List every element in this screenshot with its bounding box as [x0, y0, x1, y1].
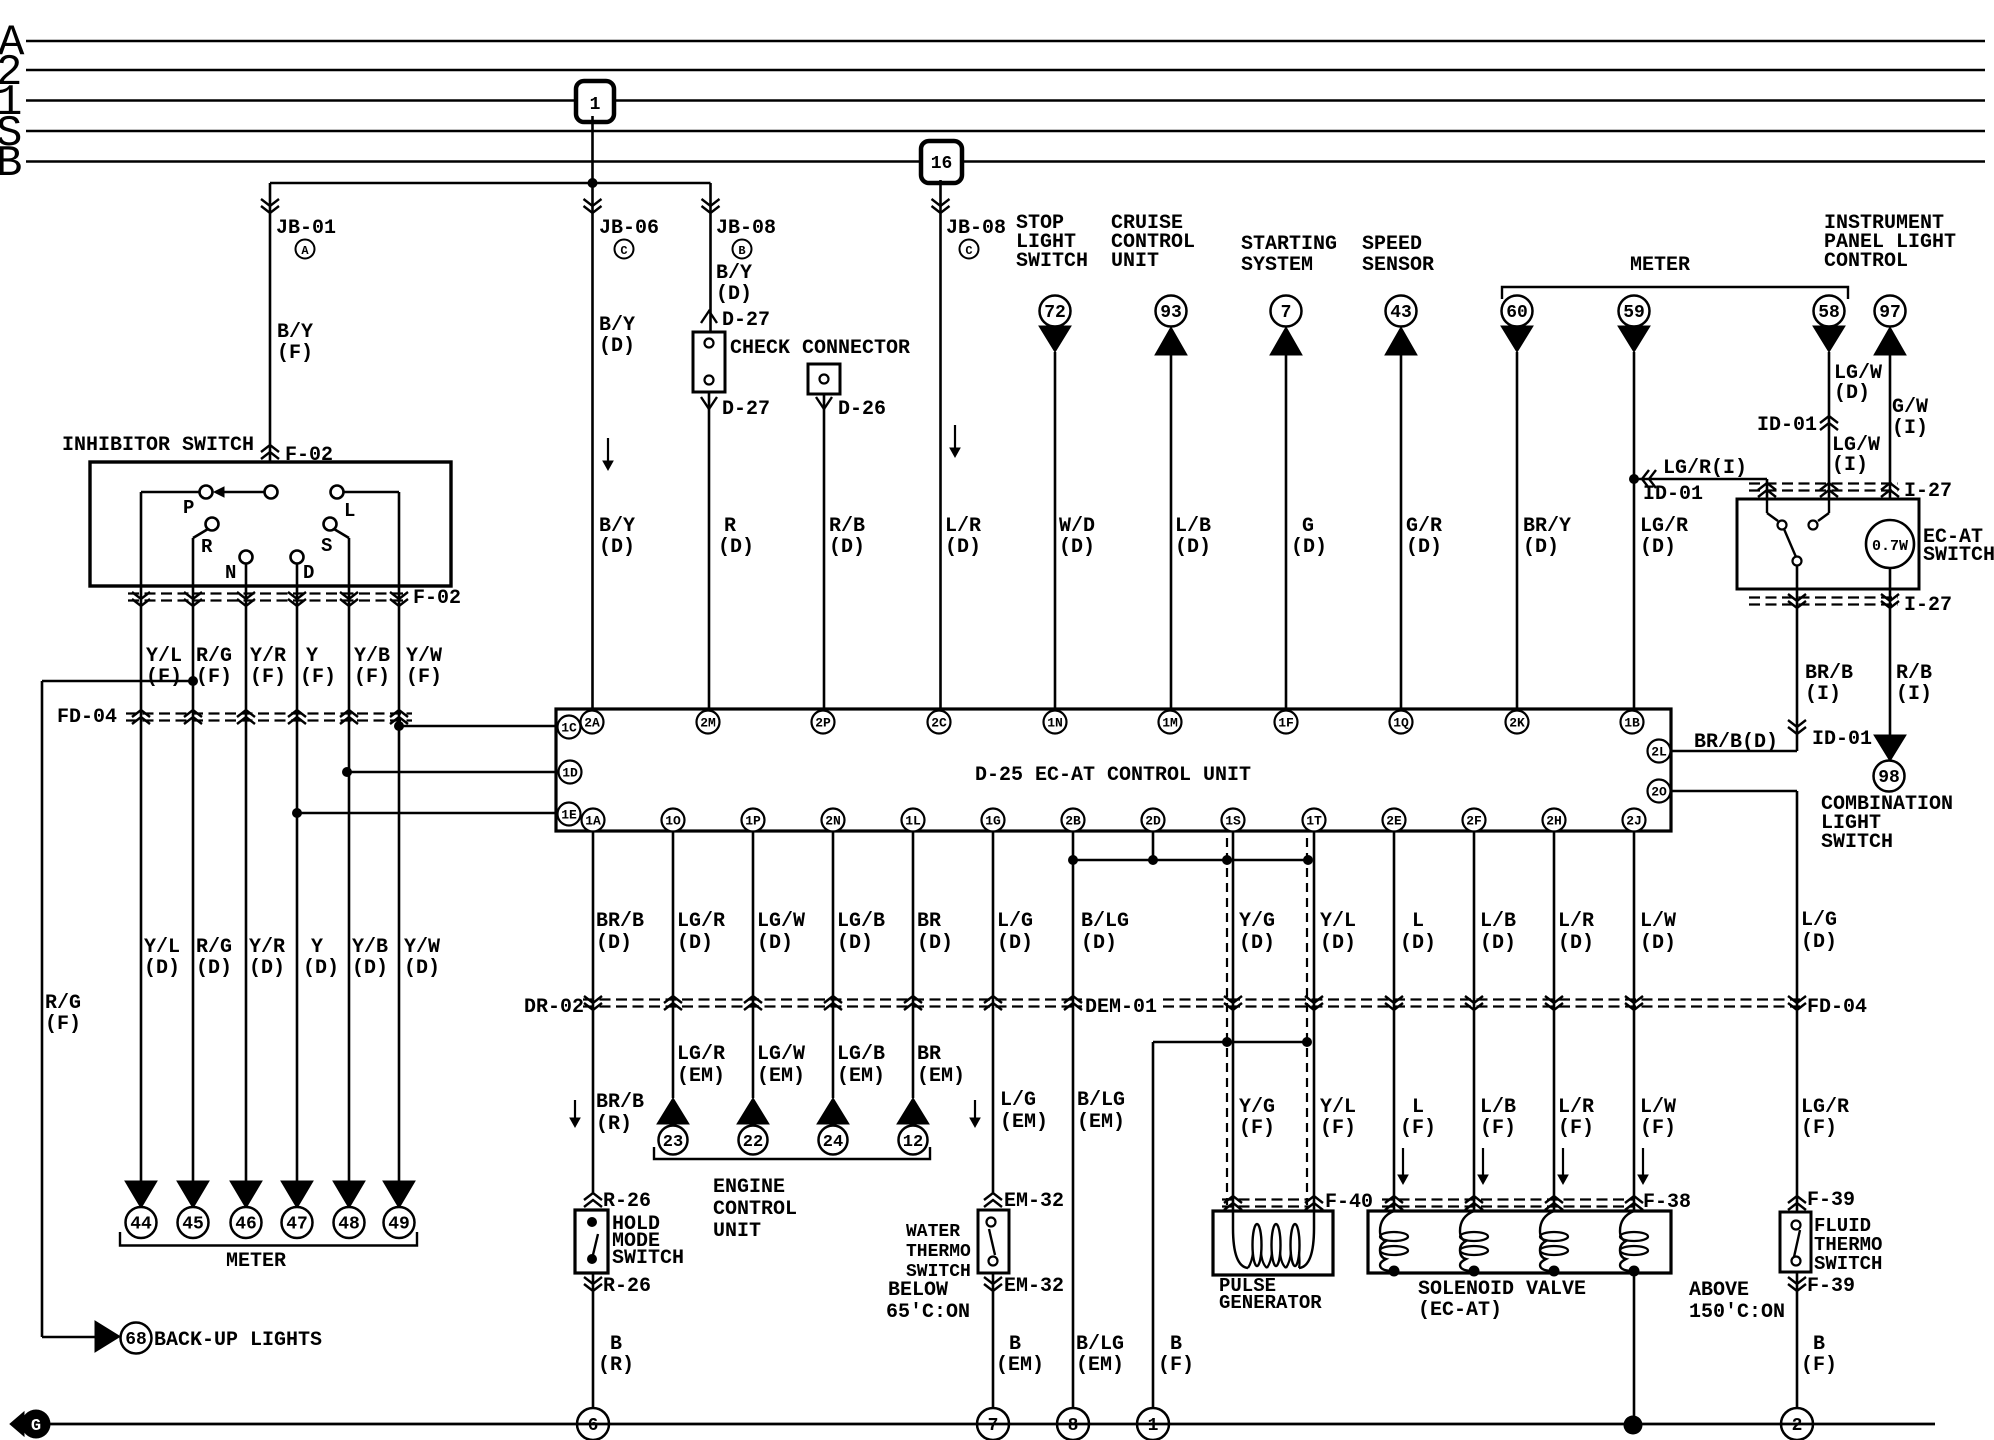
svg-text:STARTING: STARTING	[1241, 233, 1337, 256]
svg-text:LG/R: LG/R	[677, 1043, 725, 1066]
svg-text:(F): (F)	[146, 666, 182, 689]
svg-text:(D): (D)	[1640, 932, 1676, 955]
component circle 60	[1502, 296, 1533, 327]
svg-text:2B: 2B	[1065, 814, 1081, 829]
svg-text:1C: 1C	[561, 721, 577, 736]
shield dashed lines YG	[1226, 838, 1228, 1205]
EC-AT switch contact right	[1828, 499, 1830, 513]
wire L/B to solenoid	[1473, 831, 1476, 1211]
svg-text:SWITCH: SWITCH	[1821, 831, 1893, 854]
svg-text:(D): (D)	[599, 335, 635, 358]
svg-text:R/G: R/G	[45, 992, 81, 1015]
wire D down	[296, 563, 299, 586]
pulse generator coil	[1233, 1211, 1248, 1268]
wire from bulb down to combination light switch	[1889, 568, 1892, 735]
junction node solenoid L/W	[1629, 1266, 1640, 1277]
svg-text:SWITCH: SWITCH	[1923, 544, 1994, 567]
wire L/R to solenoid	[1553, 831, 1556, 1211]
svg-text:SPEED: SPEED	[1362, 233, 1422, 256]
svg-text:(F): (F)	[1320, 1117, 1356, 1140]
svg-text:LG/B: LG/B	[837, 1043, 885, 1066]
flow arrow on 2C wire	[954, 425, 956, 455]
wire L to solenoid	[1393, 831, 1396, 1211]
solenoid valve box	[1368, 1211, 1671, 1273]
svg-text:R-26: R-26	[603, 1275, 651, 1298]
svg-text:Y/G: Y/G	[1239, 910, 1275, 933]
component circle 22	[739, 1126, 768, 1155]
inhibitor blade arrow	[224, 491, 264, 494]
component circle 72	[1040, 296, 1071, 327]
svg-text:B: B	[1170, 1333, 1182, 1356]
wire 60 to pin 2K	[1516, 352, 1519, 709]
svg-text:2A: 2A	[584, 716, 600, 731]
wire JB horizontal branch	[270, 182, 711, 185]
shield bus horizontal 1	[1073, 859, 1308, 862]
wire JB-01 drop to inhibitor switch	[269, 183, 272, 487]
connector F-39 bottom	[1788, 1284, 1806, 1291]
svg-text:Y/G: Y/G	[1239, 1096, 1275, 1119]
pin 2H	[1543, 809, 1566, 832]
svg-text:(F): (F)	[1480, 1117, 1516, 1140]
svg-text:44: 44	[130, 1215, 152, 1235]
shield drain wire	[1153, 1041, 1307, 1044]
svg-text:SOLENOID VALVE: SOLENOID VALVE	[1418, 1278, 1586, 1301]
arrow down to 98	[1874, 735, 1906, 761]
svg-text:72: 72	[1044, 303, 1066, 323]
svg-text:B: B	[610, 1333, 622, 1356]
svg-text:(F): (F)	[196, 666, 232, 689]
wire LG/R(I) branch horizontal	[1634, 478, 1767, 481]
svg-text:0.7W: 0.7W	[1872, 538, 1908, 555]
svg-text:L/R: L/R	[945, 515, 981, 538]
svg-text:BR/B: BR/B	[1805, 662, 1853, 685]
component circle 58	[1814, 296, 1845, 327]
svg-text:(F): (F)	[300, 666, 336, 689]
wire from fuse 16 to pin 2C	[939, 180, 942, 709]
arrow up to 7	[1270, 327, 1302, 355]
circled C	[615, 240, 634, 259]
svg-text:1: 1	[590, 95, 601, 115]
svg-text:LG/W: LG/W	[757, 910, 805, 933]
wire 1G to water thermo switch	[992, 831, 995, 1193]
svg-text:(D): (D)	[249, 957, 285, 980]
connector JB-08 B crossing	[702, 206, 720, 213]
component circle 97	[1875, 296, 1906, 327]
pin 2D	[1142, 809, 1165, 832]
svg-text:BR: BR	[917, 1043, 941, 1066]
wire P to Y/L column	[141, 491, 199, 494]
svg-text:(F): (F)	[354, 666, 390, 689]
svg-text:Y: Y	[311, 936, 323, 959]
svg-text:(R): (R)	[596, 1113, 632, 1136]
inhibitor contact D	[291, 551, 304, 564]
svg-text:(D): (D)	[596, 932, 632, 955]
svg-text:(F): (F)	[45, 1013, 81, 1036]
svg-text:150'C:ON: 150'C:ON	[1689, 1301, 1785, 1324]
svg-text:(D): (D)	[1558, 932, 1594, 955]
component circle 12	[899, 1126, 928, 1155]
pin 2N	[822, 809, 845, 832]
svg-text:JB-08: JB-08	[946, 217, 1006, 240]
svg-text:Y/R: Y/R	[250, 645, 286, 668]
ground circle 6	[577, 1408, 609, 1440]
flow arrow L/R	[1562, 1148, 1564, 1182]
inhibitor contact L	[331, 486, 344, 499]
svg-text:(D): (D)	[599, 536, 635, 559]
svg-text:(EM): (EM)	[917, 1065, 965, 1088]
connector D-27 top	[701, 311, 717, 323]
svg-text:2E: 2E	[1386, 814, 1402, 829]
svg-text:WATER: WATER	[906, 1222, 960, 1242]
junction node solenoid L/R	[1549, 1266, 1560, 1277]
svg-text:SWITCH: SWITCH	[612, 1247, 684, 1270]
arrow up to 23	[657, 1098, 689, 1124]
flow arrow L/B	[1482, 1148, 1484, 1182]
arrow down from 60	[1501, 326, 1533, 352]
pin 2J	[1623, 809, 1646, 832]
bus line A	[26, 40, 1985, 43]
svg-text:1L: 1L	[905, 814, 921, 829]
svg-text:1B: 1B	[1624, 716, 1640, 731]
svg-text:(D): (D)	[1523, 536, 1559, 559]
pulse generator box	[1213, 1211, 1333, 1275]
svg-text:2L: 2L	[1651, 745, 1667, 760]
svg-text:(D): (D)	[757, 932, 793, 955]
arrow up to 93	[1155, 327, 1187, 355]
svg-text:LG/R(I): LG/R(I)	[1663, 457, 1747, 480]
wire Y/R column	[245, 586, 248, 1181]
svg-text:(D): (D)	[829, 536, 865, 559]
svg-text:B/Y: B/Y	[716, 262, 752, 285]
wire Y column	[296, 586, 299, 1181]
svg-text:2C: 2C	[931, 716, 947, 731]
svg-text:ID-01: ID-01	[1757, 414, 1817, 437]
connector D-26 bottom	[816, 397, 832, 409]
back-up lights arrow	[95, 1321, 120, 1352]
svg-text:CONTROL: CONTROL	[1824, 250, 1908, 273]
inhibitor switch box	[90, 462, 451, 586]
svg-text:2N: 2N	[825, 814, 841, 829]
circled A	[296, 240, 315, 259]
svg-text:B/Y: B/Y	[599, 515, 635, 538]
wire Y/L column	[140, 586, 143, 1181]
svg-text:B/LG: B/LG	[1077, 1089, 1125, 1112]
svg-text:BR/B: BR/B	[596, 910, 644, 933]
connector R-26 bottom	[584, 1284, 602, 1291]
svg-text:BR/Y: BR/Y	[1523, 515, 1571, 538]
svg-text:(D): (D)	[404, 957, 440, 980]
svg-text:JB-08: JB-08	[716, 217, 776, 240]
connector F-02 bottom dashed line	[128, 592, 408, 594]
svg-text:R/B: R/B	[1896, 662, 1932, 685]
svg-text:F-39: F-39	[1807, 1275, 1855, 1298]
connector ID-01 lower crossing	[1788, 727, 1806, 734]
wire R/G column	[192, 586, 195, 1181]
svg-text:C: C	[620, 244, 627, 258]
svg-text:47: 47	[286, 1215, 308, 1235]
svg-text:60: 60	[1506, 303, 1528, 323]
svg-text:R-26: R-26	[603, 1190, 651, 1213]
fuse 16 on bus B	[921, 141, 962, 183]
engine control unit bracket	[654, 1147, 930, 1159]
wire 72 to pin 1N	[1054, 352, 1057, 709]
ground symbol G	[10, 1412, 24, 1436]
pin 1O	[662, 809, 685, 832]
svg-text:(I): (I)	[1832, 454, 1868, 477]
wire 1T pulse generator	[1313, 831, 1316, 1211]
arrow down from 59	[1618, 326, 1650, 352]
junction node shield YG	[1222, 855, 1232, 865]
svg-text:1N: 1N	[1047, 716, 1063, 731]
connector EM-32 bottom	[984, 1284, 1002, 1291]
svg-text:22: 22	[743, 1133, 763, 1152]
svg-text:L/W: L/W	[1640, 1096, 1676, 1119]
junction node fuse1/JB branch	[588, 178, 598, 188]
ground circle 1	[1137, 1408, 1169, 1440]
component circle 68	[121, 1323, 152, 1354]
svg-text:1F: 1F	[1278, 716, 1294, 731]
svg-text:SWITCH: SWITCH	[1016, 250, 1088, 273]
svg-text:1S: 1S	[1225, 814, 1241, 829]
svg-text:Y: Y	[306, 645, 318, 668]
svg-text:B/LG: B/LG	[1076, 1333, 1124, 1356]
wire LG/W to ECU 22	[752, 831, 755, 1098]
svg-text:B/Y: B/Y	[599, 314, 635, 337]
svg-text:(D): (D)	[945, 536, 981, 559]
svg-text:JB-06: JB-06	[599, 217, 659, 240]
ground circle 2	[1781, 1408, 1813, 1440]
svg-text:UNIT: UNIT	[1111, 250, 1159, 273]
connector I-27 bottom dashed line	[1749, 596, 1898, 598]
svg-text:(D): (D)	[1406, 536, 1442, 559]
wire 7 to pin 1F	[1285, 352, 1288, 709]
water thermo switch box	[978, 1210, 1009, 1273]
junction node Y to 1E	[292, 808, 302, 818]
solenoid coil L	[1380, 1211, 1394, 1271]
junction node Y/B to 1D	[342, 767, 352, 777]
svg-text:(R): (R)	[598, 1354, 634, 1377]
svg-text:(D): (D)	[1239, 932, 1275, 955]
svg-text:(D): (D)	[716, 283, 752, 306]
pin 2A	[581, 711, 604, 734]
svg-text:SENSOR: SENSOR	[1362, 254, 1434, 277]
svg-text:(EC-AT): (EC-AT)	[1418, 1299, 1502, 1322]
wire 1A to ground 6	[592, 1273, 595, 1410]
flow arrow on 1G wire	[974, 1100, 976, 1125]
svg-text:Y/L: Y/L	[1320, 910, 1356, 933]
svg-text:(D): (D)	[1400, 932, 1436, 955]
svg-text:(D): (D)	[144, 957, 180, 980]
connector EM-32 top	[984, 1193, 1002, 1200]
circled C 2	[960, 240, 979, 259]
svg-text:D-27: D-27	[722, 309, 770, 332]
bus line S	[26, 130, 1985, 133]
pin 1C	[558, 716, 581, 739]
svg-text:Y/R: Y/R	[249, 936, 285, 959]
svg-text:SWITCH: SWITCH	[1814, 1253, 1882, 1275]
pin 2E	[1383, 809, 1406, 832]
wire L to Y/W column	[344, 491, 399, 494]
pin 1N	[1044, 711, 1067, 734]
svg-text:(F): (F)	[1158, 1354, 1194, 1377]
wire Y/B column	[348, 586, 351, 1181]
wire Y to pin 1E	[297, 812, 556, 815]
svg-text:(F): (F)	[1801, 1354, 1837, 1377]
svg-text:INHIBITOR SWITCH: INHIBITOR SWITCH	[62, 434, 254, 457]
connector D-27 bottom	[701, 397, 717, 409]
connector JB-06 crossing	[584, 206, 602, 213]
svg-text:LG/R: LG/R	[1801, 1096, 1849, 1119]
EC-AT switch box	[1737, 499, 1919, 589]
svg-text:R/B: R/B	[829, 515, 865, 538]
svg-text:Y/B: Y/B	[354, 645, 390, 668]
svg-text:98: 98	[1878, 768, 1900, 788]
svg-text:(D): (D)	[1081, 932, 1117, 955]
pin 1P	[742, 809, 765, 832]
svg-text:S: S	[321, 535, 332, 557]
svg-text:2F: 2F	[1466, 814, 1482, 829]
meter bracket top	[1502, 287, 1848, 299]
connector JB-08 C crossing	[932, 206, 950, 213]
svg-text:(D): (D)	[1480, 932, 1516, 955]
svg-text:(D): (D)	[997, 932, 1033, 955]
flow arrow on 2A wire	[607, 438, 609, 468]
pin 1Q	[1390, 711, 1413, 734]
EC-AT control unit box	[556, 709, 1671, 831]
svg-text:L/G: L/G	[1000, 1089, 1036, 1112]
wire Y/W to pin 1C	[399, 725, 556, 728]
junction node solenoid L	[1389, 1266, 1400, 1277]
component circle 7	[1271, 296, 1302, 327]
svg-text:16: 16	[931, 154, 953, 174]
svg-text:2P: 2P	[815, 716, 831, 731]
pin 2M	[697, 711, 720, 734]
svg-text:43: 43	[1390, 303, 1412, 323]
svg-text:D-26: D-26	[838, 398, 886, 421]
svg-text:L: L	[344, 500, 355, 522]
svg-text:12: 12	[903, 1133, 923, 1152]
svg-text:(F): (F)	[1239, 1117, 1275, 1140]
junction node 2D shield	[1148, 855, 1158, 865]
wire 93 to pin 1M	[1170, 352, 1173, 709]
lamp 0.7W	[1866, 520, 1914, 568]
fuse 1 on bus 1	[576, 81, 614, 122]
wire 2O to fluid thermo switch	[1671, 790, 1797, 793]
svg-text:L/W: L/W	[1640, 910, 1676, 933]
svg-text:1M: 1M	[1162, 716, 1178, 731]
svg-text:(F): (F)	[250, 666, 286, 689]
wire to ground 7	[992, 1273, 995, 1410]
component circle 43	[1386, 296, 1417, 327]
junction node R/G backup branch	[188, 676, 198, 686]
svg-text:(D): (D)	[303, 957, 339, 980]
svg-text:ENGINE: ENGINE	[713, 1176, 785, 1199]
svg-text:L/R: L/R	[1558, 910, 1594, 933]
svg-text:(D): (D)	[1834, 382, 1870, 405]
junction node 2B shield	[1068, 855, 1078, 865]
svg-text:L/B: L/B	[1480, 1096, 1516, 1119]
svg-text:2O: 2O	[1651, 785, 1667, 800]
svg-text:(D): (D)	[1059, 536, 1095, 559]
svg-text:Y/W: Y/W	[404, 936, 440, 959]
svg-text:(EM): (EM)	[757, 1065, 805, 1088]
wire JB-08 B drop to check connector	[709, 183, 712, 332]
svg-text:58: 58	[1818, 303, 1840, 323]
svg-text:F-39: F-39	[1807, 1189, 1855, 1212]
connector F-40 dashed line	[1222, 1198, 1310, 1200]
connector ID-01 chevrons on branch	[1642, 470, 1649, 488]
svg-text:BACK-UP LIGHTS: BACK-UP LIGHTS	[154, 1329, 322, 1352]
flow arrow on 1A wire	[574, 1100, 576, 1125]
wire Y/W column	[398, 586, 401, 1181]
svg-text:65'C:ON: 65'C:ON	[886, 1301, 970, 1324]
svg-text:JB-01: JB-01	[276, 217, 336, 240]
pin 1A	[582, 809, 605, 832]
svg-text:METER: METER	[1630, 254, 1690, 277]
connector JB-01 crossing	[261, 206, 279, 213]
svg-text:LG/R: LG/R	[677, 910, 725, 933]
svg-text:2H: 2H	[1546, 814, 1562, 829]
svg-text:FD-04: FD-04	[57, 706, 117, 729]
wire 97 to EC-AT switch bulb	[1889, 352, 1892, 520]
component circle 24	[819, 1126, 848, 1155]
svg-text:METER: METER	[226, 1250, 286, 1273]
svg-text:B: B	[1813, 1333, 1825, 1356]
wire horizontal to pin 2L	[1671, 750, 1797, 753]
svg-text:1O: 1O	[665, 814, 681, 829]
ground circle 8	[1057, 1408, 1089, 1440]
junction node LG/R(I) branch	[1629, 474, 1639, 484]
svg-text:(EM): (EM)	[1000, 1111, 1048, 1134]
svg-text:1: 1	[1148, 1416, 1159, 1436]
EC-AT switch blade	[1784, 529, 1796, 557]
fluid thermo switch box	[1780, 1212, 1811, 1272]
svg-text:Y/W: Y/W	[406, 645, 442, 668]
ground circle 7	[977, 1408, 1009, 1440]
wire 2B to ground 8	[1072, 831, 1075, 1410]
svg-text:D: D	[303, 562, 314, 584]
pin 2F	[1463, 809, 1486, 832]
svg-text:B: B	[0, 139, 22, 189]
svg-text:23: 23	[663, 1133, 683, 1152]
svg-text:93: 93	[1160, 303, 1182, 323]
bus line 2	[26, 69, 1985, 72]
svg-text:46: 46	[235, 1215, 257, 1235]
svg-text:L/G: L/G	[997, 910, 1033, 933]
ground bus line	[50, 1423, 1935, 1426]
svg-text:2M: 2M	[700, 716, 716, 731]
svg-text:L: L	[1412, 910, 1424, 933]
svg-text:45: 45	[182, 1215, 204, 1235]
flow arrow L/W	[1642, 1148, 1644, 1182]
junction node Y/W to 1C	[394, 721, 404, 731]
wire from check connector to pin 2M	[708, 392, 711, 709]
svg-text:CHECK CONNECTOR: CHECK CONNECTOR	[730, 337, 910, 360]
svg-text:THERMO: THERMO	[906, 1242, 971, 1262]
pin 1T	[1303, 809, 1326, 832]
svg-text:ID-01: ID-01	[1643, 483, 1703, 506]
connector ID-01 crossing 58 wire	[1820, 416, 1838, 423]
svg-text:LG/B: LG/B	[837, 910, 885, 933]
arrow up to 97	[1874, 327, 1906, 355]
svg-text:GENERATOR: GENERATOR	[1219, 1292, 1322, 1314]
connector FD-04 left dashed line	[126, 712, 412, 714]
svg-text:(EM): (EM)	[1077, 1111, 1125, 1134]
svg-text:1D: 1D	[562, 766, 578, 781]
svg-text:(D): (D)	[1175, 536, 1211, 559]
svg-text:1P: 1P	[745, 814, 761, 829]
shield dashed lines YL	[1306, 838, 1308, 1205]
